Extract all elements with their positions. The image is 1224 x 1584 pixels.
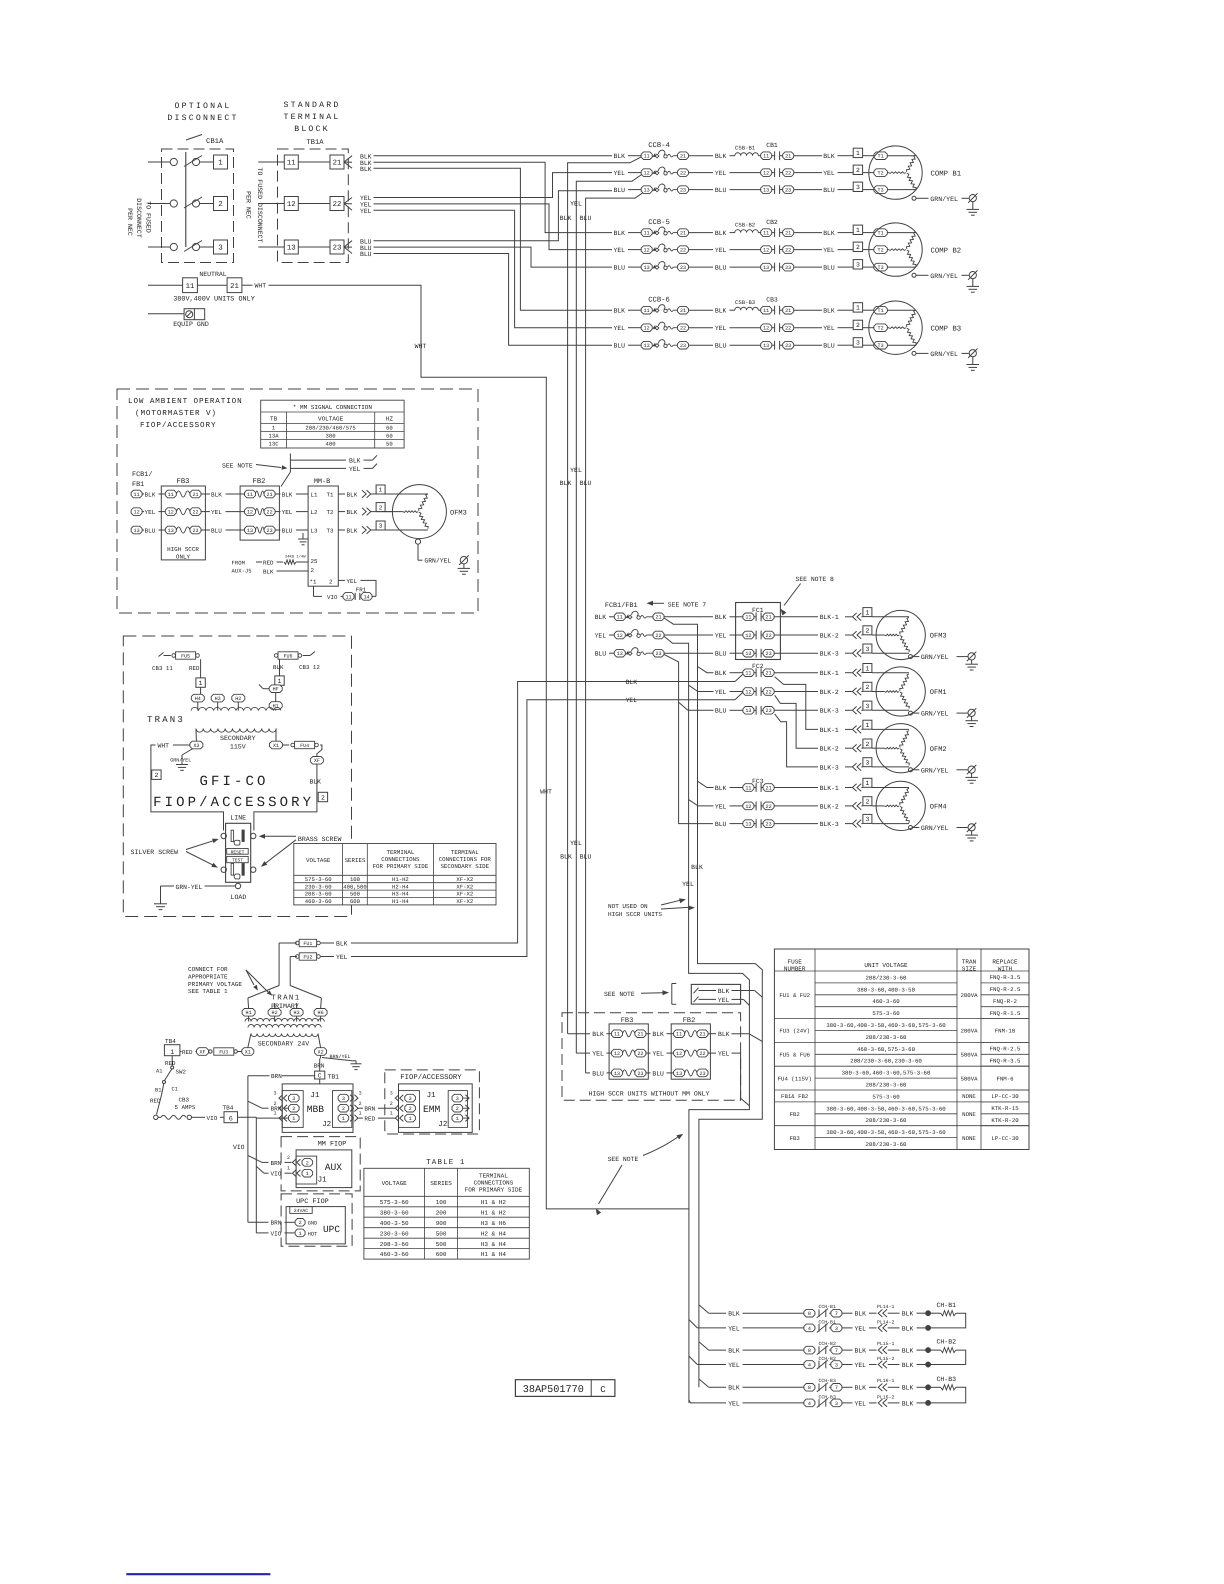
svg-text:BLU: BLU xyxy=(360,251,372,258)
bus labels YEL BLK BLU upper xyxy=(560,201,592,223)
svg-text:NONE: NONE xyxy=(962,1111,976,1118)
svg-text:H1: H1 xyxy=(273,703,279,709)
svg-text:WHT: WHT xyxy=(158,743,170,750)
CCB-5 pole BLK xyxy=(614,227,735,237)
table GFI voltage/series xyxy=(294,844,496,906)
svg-text:11: 11 xyxy=(345,594,351,600)
svg-text:PER NEC: PER NEC xyxy=(245,191,252,219)
breaker pole 3 of CB1A xyxy=(148,240,228,254)
label FCB1/FB1 (low ambient) xyxy=(132,471,152,489)
svg-text:460-3-60,575-3-60: 460-3-60,575-3-60 xyxy=(857,1046,916,1053)
fuse FU6 with leads xyxy=(273,652,320,677)
ground stub on MM-B L3 xyxy=(298,533,308,545)
junction dot (BLK B3) xyxy=(925,1385,930,1390)
svg-text:2: 2 xyxy=(154,772,158,779)
svg-text:BLK: BLK xyxy=(728,1385,740,1392)
svg-text:YEL: YEL xyxy=(682,881,694,888)
svg-text:A1: A1 xyxy=(156,1069,162,1075)
terminal T3 of COMP B2 xyxy=(874,263,916,271)
svg-text:COMP B1: COMP B1 xyxy=(931,170,962,178)
svg-text:13A: 13A xyxy=(269,433,280,440)
svg-text:WHT: WHT xyxy=(255,283,267,290)
svg-text:400,500: 400,500 xyxy=(343,883,367,890)
label TRAN1 PRIMARY xyxy=(271,995,300,1011)
box UPC FIOP dashed xyxy=(281,1194,352,1246)
svg-text:CB1: CB1 xyxy=(766,142,778,149)
svg-text:SILVER SCREW: SILVER SCREW xyxy=(131,849,179,856)
svg-text:TERMINAL: TERMINAL xyxy=(451,849,479,856)
terminal TB1A 12-22 xyxy=(258,197,344,211)
motor OFM2 xyxy=(876,724,947,773)
svg-text:FC2: FC2 xyxy=(752,663,764,670)
terminal square 3 for OFM2 xyxy=(863,758,909,767)
ground at X3 GRN/YEL xyxy=(170,749,193,771)
svg-text:BRN: BRN xyxy=(314,1063,325,1070)
svg-text:12: 12 xyxy=(644,326,650,332)
svg-text:BRN: BRN xyxy=(271,1073,282,1080)
svg-text:YEL: YEL xyxy=(570,467,582,474)
svg-text:YEL: YEL xyxy=(626,697,638,704)
svg-text:YEL: YEL xyxy=(728,1400,740,1407)
svg-text:13: 13 xyxy=(614,1071,620,1077)
svg-text:21: 21 xyxy=(333,160,342,168)
table MM SIGNAL CONNECTION xyxy=(261,400,404,448)
svg-text:24VAC: 24VAC xyxy=(294,1208,309,1214)
svg-text:RED: RED xyxy=(189,665,200,672)
svg-text:11: 11 xyxy=(614,1032,620,1038)
svg-text:BLK: BLK xyxy=(626,679,638,686)
svg-text:21: 21 xyxy=(230,283,239,291)
svg-text:23: 23 xyxy=(680,188,686,194)
terminal square 2 for OFM2 xyxy=(863,739,885,748)
wire BLK-2 to OFM3 xyxy=(820,631,863,639)
svg-text:24KΩ 1/4W: 24KΩ 1/4W xyxy=(285,555,306,560)
svg-text:HOT: HOT xyxy=(308,1231,318,1237)
svg-text:SEE NOTE: SEE NOTE xyxy=(608,1156,639,1163)
svg-text:T2: T2 xyxy=(878,248,884,254)
svg-text:HIGH SCCR: HIGH SCCR xyxy=(167,546,199,553)
svg-text:22: 22 xyxy=(766,689,772,695)
svg-text:FR1: FR1 xyxy=(356,586,367,593)
svg-text:PRIMARY VOLTAGE: PRIMARY VOLTAGE xyxy=(188,981,242,988)
svg-text:BLK-1: BLK-1 xyxy=(820,785,839,792)
svg-text:ONLY: ONLY xyxy=(176,554,191,561)
svg-text:200VA: 200VA xyxy=(960,992,978,999)
svg-text:22: 22 xyxy=(699,1051,705,1057)
svg-text:YEL: YEL xyxy=(715,632,727,639)
svg-text:PL16-2: PL16-2 xyxy=(877,1394,894,1400)
wire BRN to AUX J1-2 xyxy=(248,1155,292,1166)
svg-text:22: 22 xyxy=(785,248,791,254)
terminal X3 xyxy=(190,741,203,749)
svg-text:NONE: NONE xyxy=(962,1093,976,1100)
svg-text:BLK: BLK xyxy=(718,1031,730,1038)
svg-text:1: 1 xyxy=(199,680,203,687)
svg-text:GRN/YEL: GRN/YEL xyxy=(921,825,949,832)
bus labels YEL BLK BLU lower xyxy=(560,840,591,861)
svg-text:11: 11 xyxy=(676,1032,682,1038)
box LOW AMBIENT OPERATION dashed enclosure xyxy=(117,389,478,613)
svg-text:2: 2 xyxy=(273,1101,276,1107)
svg-text:YEL: YEL xyxy=(718,1051,730,1058)
svg-text:BLU: BLU xyxy=(282,527,293,534)
svg-text:H1-H2: H1-H2 xyxy=(392,876,409,883)
svg-text:BLU: BLU xyxy=(823,187,835,194)
svg-text:11: 11 xyxy=(644,231,650,237)
svg-text:1: 1 xyxy=(299,1231,302,1237)
svg-text:13: 13 xyxy=(676,1071,682,1077)
svg-text:1: 1 xyxy=(278,678,282,685)
terminal square 2 for OFM1 xyxy=(863,682,885,691)
svg-text:AUX-J5: AUX-J5 xyxy=(232,568,252,575)
svg-text:FU4: FU4 xyxy=(300,743,309,749)
MM-B input 2 BLK xyxy=(263,569,308,576)
wire WHT from neutral xyxy=(269,285,689,1209)
label CB1A xyxy=(186,135,224,147)
svg-text:11: 11 xyxy=(617,615,623,621)
svg-text:575-3-60: 575-3-60 xyxy=(872,1010,900,1017)
svg-text:22: 22 xyxy=(785,171,791,177)
svg-text:NUMBER: NUMBER xyxy=(784,966,806,973)
note NOT USED ON HIGH SCCR UNITS xyxy=(608,898,695,917)
terminal square 2 for OFM3 xyxy=(863,626,885,635)
svg-text:2: 2 xyxy=(299,1220,302,1226)
svg-text:YEL: YEL xyxy=(855,1362,867,1369)
svg-text:BLK: BLK xyxy=(902,1400,914,1407)
svg-text:11: 11 xyxy=(287,160,296,168)
svg-text:BLU: BLU xyxy=(614,265,626,272)
svg-text:BLK: BLK xyxy=(347,527,358,534)
breaker FCB1/FB1 pole BLU xyxy=(595,648,713,658)
svg-text:BLK: BLK xyxy=(263,569,274,576)
vertical note TO FUSED DISCONNECT PER NEC (left) xyxy=(126,198,152,238)
wire square1 to H4 xyxy=(200,687,202,694)
svg-text:BLK: BLK xyxy=(823,153,835,160)
breaker FCB1/FB1 pole BLK xyxy=(595,611,713,621)
svg-text:YEL: YEL xyxy=(652,1051,664,1058)
terminal TB1A 11-21 xyxy=(258,155,344,169)
svg-text:1: 1 xyxy=(218,160,223,168)
terminal square 1 for COMP B3 xyxy=(853,303,874,312)
crankcase heater contact CCH-B2 (BLK) xyxy=(709,1341,877,1355)
svg-text:BLU: BLU xyxy=(592,1070,604,1077)
svg-text:CB1A: CB1A xyxy=(206,138,224,146)
svg-text:2: 2 xyxy=(856,167,860,174)
crankcase heater contact CCH-B1 (BLK) xyxy=(709,1304,877,1318)
transformer TRAN3 secondary winding xyxy=(196,729,276,742)
svg-text:BLK: BLK xyxy=(310,779,322,786)
svg-text:H1-H4: H1-H4 xyxy=(392,898,409,905)
motor OFM4 xyxy=(876,781,947,830)
MM signal bracket wires BLK YEL xyxy=(281,454,377,487)
svg-text:12: 12 xyxy=(763,326,769,332)
svg-text:7: 7 xyxy=(835,1311,838,1317)
fuse block FB3 (low ambient) xyxy=(161,478,205,561)
wire YEL FB2 output xyxy=(708,1051,749,1106)
wire VIO to UPC HOT xyxy=(256,1230,295,1237)
svg-text:100: 100 xyxy=(436,1199,447,1206)
svg-text:TERMINAL: TERMINAL xyxy=(386,849,414,856)
svg-text:J2: J2 xyxy=(438,1120,448,1129)
junction dot (YEL B3) xyxy=(925,1400,930,1405)
crankcase heater contact CCH-B3 (YEL) xyxy=(697,1394,876,1407)
svg-text:BLK: BLK xyxy=(855,1385,867,1392)
svg-text:BLU: BLU xyxy=(595,651,607,658)
svg-text:208-3-60: 208-3-60 xyxy=(380,1241,409,1248)
svg-text:8: 8 xyxy=(808,1348,811,1354)
svg-text:23: 23 xyxy=(699,1071,705,1077)
svg-text:PL15-2: PL15-2 xyxy=(877,1356,894,1362)
svg-text:12: 12 xyxy=(763,171,769,177)
svg-text:600: 600 xyxy=(350,898,361,905)
wire YEL phase1 to CCB-4 xyxy=(374,173,613,198)
svg-text:SECONDARY SIDE: SECONDARY SIDE xyxy=(440,863,489,870)
svg-text:BLK: BLK xyxy=(211,491,222,498)
CCB-5 pole BLU xyxy=(614,262,761,272)
breaker pole 2 of CB1A xyxy=(148,197,228,211)
svg-text:BLK: BLK xyxy=(282,491,293,498)
terminal square 2 (left GFI) xyxy=(152,770,161,779)
svg-text:21: 21 xyxy=(766,785,772,791)
svg-text:FC1: FC1 xyxy=(752,607,764,614)
breaker pole 1 of CB1A xyxy=(148,155,228,169)
terminal square 2 for COMP B1 xyxy=(853,165,874,174)
svg-text:BRN/YEL: BRN/YEL xyxy=(330,1054,351,1060)
svg-text:3: 3 xyxy=(292,1096,295,1102)
junction dot (YEL B2) xyxy=(925,1362,930,1367)
svg-text:YEL: YEL xyxy=(282,509,293,516)
transformer TRAN1 primary winding xyxy=(245,1018,324,1027)
terminal T2 of COMP B3 xyxy=(874,324,889,332)
svg-text:CCB-4: CCB-4 xyxy=(648,142,670,150)
svg-text:FROM: FROM xyxy=(232,560,245,567)
svg-text:CSB-B2: CSB-B2 xyxy=(735,222,755,229)
svg-text:3: 3 xyxy=(390,1091,393,1097)
svg-text:BLU: BLU xyxy=(652,1070,664,1077)
svg-text:FB1: FB1 xyxy=(132,481,144,489)
wire BLK FB3 to FB2 xyxy=(646,1031,674,1038)
wire BLK tap to FC2 xyxy=(698,667,714,673)
svg-text:22: 22 xyxy=(655,633,661,639)
fuse block FB2 (high SCCR) xyxy=(671,1017,710,1079)
terminal square 3 for OFM4 xyxy=(863,814,909,823)
svg-text:575-3-60: 575-3-60 xyxy=(305,876,332,883)
svg-text:22: 22 xyxy=(680,326,686,332)
svg-text:4: 4 xyxy=(808,1326,811,1332)
terminal square 1 for OFM4 xyxy=(863,778,909,787)
box MM signal connection wires xyxy=(691,984,762,1005)
svg-text:TB4: TB4 xyxy=(165,1038,176,1045)
svg-text:2: 2 xyxy=(292,1106,295,1112)
svg-text:GRN/YEL: GRN/YEL xyxy=(921,767,949,774)
svg-text:YEL: YEL xyxy=(715,689,727,696)
svg-text:YEL: YEL xyxy=(855,1400,867,1407)
svg-text:1: 1 xyxy=(456,1116,459,1122)
svg-text:TEST: TEST xyxy=(232,858,243,864)
svg-text:PL14-2: PL14-2 xyxy=(877,1319,894,1325)
svg-text:3: 3 xyxy=(865,646,869,653)
box HIGH SCCR FB3/FB2 dashed enclosure xyxy=(562,1013,741,1101)
svg-text:380V,400V UNITS ONLY: 380V,400V UNITS ONLY xyxy=(173,296,255,304)
svg-text:BLK-3: BLK-3 xyxy=(820,821,839,828)
fuse block FB2 (low ambient) xyxy=(240,478,279,540)
wire BRN to UPC GND xyxy=(248,1220,295,1227)
svg-text:13: 13 xyxy=(763,343,769,349)
svg-text:2: 2 xyxy=(856,244,860,251)
CCB-4 pole YEL xyxy=(614,167,761,177)
field terminal 11 (low ambient) xyxy=(131,490,165,498)
svg-text:12: 12 xyxy=(617,633,623,639)
svg-text:H2: H2 xyxy=(235,696,241,702)
svg-text:YEL: YEL xyxy=(595,632,607,639)
wire BLK-3 to OFM2 xyxy=(820,763,863,771)
svg-text:230-3-60: 230-3-60 xyxy=(380,1230,409,1237)
svg-text:EQUIP GND: EQUIP GND xyxy=(173,321,209,328)
svg-text:DISCONNECT: DISCONNECT xyxy=(167,114,238,123)
svg-text:13: 13 xyxy=(644,343,650,349)
svg-text:11: 11 xyxy=(644,308,650,314)
svg-text:21: 21 xyxy=(267,492,273,498)
svg-text:KTK-R-15: KTK-R-15 xyxy=(991,1105,1019,1112)
svg-text:2: 2 xyxy=(321,794,325,801)
wire BLU FB3 to FB2 xyxy=(201,527,245,534)
svg-text:3: 3 xyxy=(865,703,869,710)
svg-text:575-3-60: 575-3-60 xyxy=(380,1199,409,1206)
svg-text:BLU: BLU xyxy=(580,480,592,487)
svg-text:BLK: BLK xyxy=(360,166,372,173)
terminal TB4-6 xyxy=(223,1105,257,1124)
svg-text:460-3-60: 460-3-60 xyxy=(380,1251,409,1258)
svg-text:RED: RED xyxy=(364,1116,375,1123)
svg-text:900: 900 xyxy=(436,1220,447,1227)
svg-text:22: 22 xyxy=(766,804,772,810)
svg-text:FIOP/ACCESSORY: FIOP/ACCESSORY xyxy=(140,421,216,430)
svg-text:XF: XF xyxy=(314,758,320,764)
svg-text:CONNECTIONS: CONNECTIONS xyxy=(474,1180,514,1187)
svg-text:380-3-60,460-3-60,575-3-60: 380-3-60,460-3-60,575-3-60 xyxy=(842,1070,931,1077)
svg-text:H1 & H2: H1 & H2 xyxy=(481,1209,507,1216)
svg-text:3: 3 xyxy=(835,1326,838,1332)
svg-text:22: 22 xyxy=(680,248,686,254)
fan contactor FC1 box xyxy=(736,603,781,660)
svg-text:23: 23 xyxy=(785,265,791,271)
svg-text:C: C xyxy=(318,1073,322,1080)
wire YEL feed to CCH-B2 xyxy=(689,1356,697,1364)
svg-text:H2 & H4: H2 & H4 xyxy=(481,1230,507,1237)
svg-text:X1: X1 xyxy=(245,1049,251,1055)
fuse FU2 with wire to FC2 YEL xyxy=(290,692,743,985)
svg-text:BLU: BLU xyxy=(145,527,156,534)
field terminal 13 (low ambient) xyxy=(131,526,165,534)
fan contactor FC2 contact row 3 xyxy=(715,668,818,677)
svg-text:BLK: BLK xyxy=(728,1311,740,1318)
fuse FU1 with wire to FC2 BLK xyxy=(279,674,743,985)
svg-text:380-3-60,400-3-50,460-3-60,575: 380-3-60,400-3-50,460-3-60,575-3-60 xyxy=(826,1022,946,1029)
svg-text:21: 21 xyxy=(699,1032,705,1038)
svg-text:3: 3 xyxy=(359,1091,362,1097)
wire YEL FB2 to MM-B xyxy=(275,509,308,516)
svg-text:1: 1 xyxy=(409,1116,412,1122)
svg-text:CSB-B1: CSB-B1 xyxy=(735,145,756,152)
terminal X2 with BRN/YEL ground xyxy=(315,1048,362,1070)
wire BLK-3 to OFM3 xyxy=(820,649,863,657)
svg-text:UPC: UPC xyxy=(323,1224,340,1235)
wire BLU FB3 to FB2 xyxy=(646,1070,674,1077)
svg-text:2: 2 xyxy=(409,1106,412,1112)
svg-text:BLK-2: BLK-2 xyxy=(820,689,839,696)
svg-text:12: 12 xyxy=(644,248,650,254)
table TABLE 1 xyxy=(364,1159,529,1259)
svg-text:CB3: CB3 xyxy=(179,1097,190,1104)
svg-text:L3: L3 xyxy=(311,527,318,534)
svg-text:23: 23 xyxy=(680,265,686,271)
svg-text:SECONDARY: SECONDARY xyxy=(220,735,256,742)
svg-text:13: 13 xyxy=(247,528,253,534)
wire BLK-2 to OFM4 xyxy=(820,802,863,810)
wire branch FC2 to OFM2 row2 xyxy=(775,695,818,748)
CB2 contact 12-22 xyxy=(761,245,854,254)
svg-text:YEL: YEL xyxy=(145,509,156,516)
svg-text:GRN/YEL: GRN/YEL xyxy=(930,273,958,280)
svg-text:SEE NOTE: SEE NOTE xyxy=(604,991,635,998)
GFI outlet body xyxy=(226,823,251,882)
svg-text:11: 11 xyxy=(644,154,650,160)
svg-text:FIOP/ACCESSORY: FIOP/ACCESSORY xyxy=(400,1073,462,1082)
terminal NEUTRAL 11-21 xyxy=(148,271,266,304)
drawing number box 38AP501770 C xyxy=(515,1380,615,1397)
svg-text:500VA: 500VA xyxy=(960,1052,978,1059)
svg-text:BLK: BLK xyxy=(595,614,607,621)
wire BLU phase1 to CCB-4 xyxy=(374,191,613,241)
svg-text:BLK-1: BLK-1 xyxy=(820,727,839,734)
ground connection OFM2 xyxy=(909,765,978,783)
svg-text:GRN/YEL: GRN/YEL xyxy=(930,196,958,203)
svg-text:FB1& FB2: FB1& FB2 xyxy=(781,1093,809,1100)
svg-text:13: 13 xyxy=(745,708,751,714)
svg-text:T1: T1 xyxy=(878,154,884,160)
svg-text:BLK: BLK xyxy=(855,1348,867,1355)
svg-text:NEUTRAL: NEUTRAL xyxy=(199,271,226,278)
svg-text:CB2: CB2 xyxy=(766,219,778,226)
label SECONDARY 115V xyxy=(220,735,256,751)
current sensor CSB-B3 xyxy=(735,299,761,310)
svg-text:12: 12 xyxy=(134,510,140,516)
fuse block FB3 (high SCCR) xyxy=(609,1017,648,1079)
svg-text:CH-B2: CH-B2 xyxy=(937,1339,957,1346)
svg-text:4: 4 xyxy=(808,1362,811,1368)
svg-text:13: 13 xyxy=(763,188,769,194)
svg-text:1: 1 xyxy=(287,1166,290,1172)
label FCB1/FB1 with SEE NOTE 7 xyxy=(605,601,706,610)
svg-text:SERIES: SERIES xyxy=(430,1180,452,1187)
svg-text:H1: H1 xyxy=(246,1010,252,1016)
svg-text:EMM: EMM xyxy=(423,1104,441,1115)
wire YEL bus into FB3 xyxy=(576,1051,611,1058)
transformer TRAN1 taps H1 H2 H3 H6 xyxy=(242,998,327,1022)
wire BLK FCB1 down-feed xyxy=(664,618,762,1387)
svg-text:CCB-6: CCB-6 xyxy=(648,297,670,305)
wire BLK-3 to OFM1 xyxy=(820,707,863,715)
svg-text:13: 13 xyxy=(644,188,650,194)
svg-text:FNQ-R-3.5: FNQ-R-3.5 xyxy=(990,974,1021,981)
svg-text:LP-CC-30: LP-CC-30 xyxy=(991,1093,1019,1100)
wire YEL feed to CCH-B1 xyxy=(689,1320,697,1328)
CB3 contact 11-21 xyxy=(761,306,854,315)
wire BLK phase1 to CCB-4 xyxy=(374,155,613,157)
svg-text:BLK-1: BLK-1 xyxy=(820,670,839,677)
crankcase heater CH-B2 xyxy=(931,1339,966,1365)
bus BLK vertical xyxy=(568,157,642,1034)
